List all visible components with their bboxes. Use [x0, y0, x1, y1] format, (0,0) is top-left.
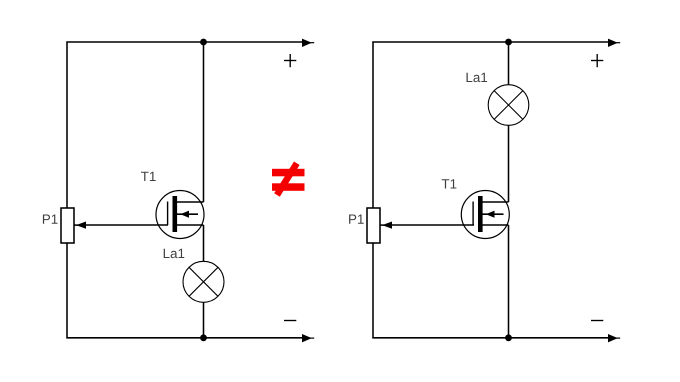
transistor T1 (right) MOSFET [461, 191, 509, 239]
wire: left circuit bottom rail [67, 243, 304, 338]
potentiometer P1 (left) wiper arrow [76, 222, 86, 229]
wire: right junction to lamp [508, 42, 510, 85]
potentiometer P1 (left) body [61, 208, 74, 243]
power terminal arrow: right circuit plus supply [608, 39, 618, 47]
label T1 (right) [442, 179, 457, 188]
power terminal arrow: right circuit minus supply [608, 334, 618, 342]
wire: right circuit top rail [373, 42, 610, 208]
power terminal arrow: left circuit plus supply [302, 39, 312, 47]
wire: right wiper-to-gate lead [391, 224, 475, 226]
node: right circuit V- junction [505, 334, 512, 341]
wire: left circuit drain wire (junction to T1 drain) [203, 42, 205, 202]
wire: right T1 source to bottom rail [508, 225, 510, 338]
lamp La1 (left) [183, 261, 224, 302]
node: right circuit V+ junction [505, 39, 512, 46]
label T1 (left) [141, 172, 156, 181]
wire: left lamp to bottom rail [203, 302, 205, 338]
power label: left plus sign [284, 54, 296, 67]
power label: right minus sign [591, 320, 603, 322]
label P1 (left) [43, 214, 58, 223]
transistor T1 (left) MOSFET [156, 191, 204, 239]
potentiometer P1 (right) body [367, 208, 380, 243]
label La1 (right) [467, 73, 488, 82]
lamp La1 (right) [488, 85, 529, 126]
label La1 (left) [164, 249, 185, 258]
potentiometer P1 (right) wiper arrow [382, 222, 392, 229]
inequality symbol (not equal) [272, 163, 305, 195]
node: left circuit V+ junction [200, 39, 207, 46]
power label: right plus sign [591, 54, 603, 67]
power label: left minus sign [284, 320, 296, 322]
wire: right circuit bottom rail [373, 243, 610, 338]
label P1 (right) [349, 214, 364, 223]
wire: right lamp to T1 drain [508, 125, 510, 202]
power terminal arrow: left circuit minus supply [302, 334, 312, 342]
wire: left T1 source to lamp [203, 225, 205, 262]
wire: left circuit top rail [67, 42, 304, 208]
wire: left wiper-to-gate lead [85, 224, 169, 226]
node: left circuit V- junction [200, 334, 207, 341]
